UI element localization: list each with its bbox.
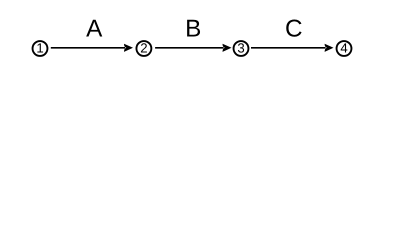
node 3: [234, 41, 249, 56]
node 4: [337, 41, 352, 56]
node 1: [33, 41, 48, 56]
wire A (edge from node 1 to node 2): [51, 47, 125, 49]
svg-text:1: 1: [36, 41, 43, 56]
svg-text:C: C: [285, 15, 303, 42]
svg-text:4: 4: [340, 41, 347, 56]
arrowhead C: [325, 44, 334, 52]
arrowhead A: [124, 44, 133, 52]
svg-text:2: 2: [140, 41, 147, 56]
node 2: [136, 41, 151, 56]
wire C (edge from node 3 to node 4): [251, 47, 326, 49]
svg-text:B: B: [185, 15, 201, 42]
wire B (edge from node 2 to node 3): [155, 47, 223, 49]
arrowhead B: [223, 44, 232, 52]
svg-text:3: 3: [237, 41, 244, 56]
svg-text:A: A: [86, 15, 103, 42]
